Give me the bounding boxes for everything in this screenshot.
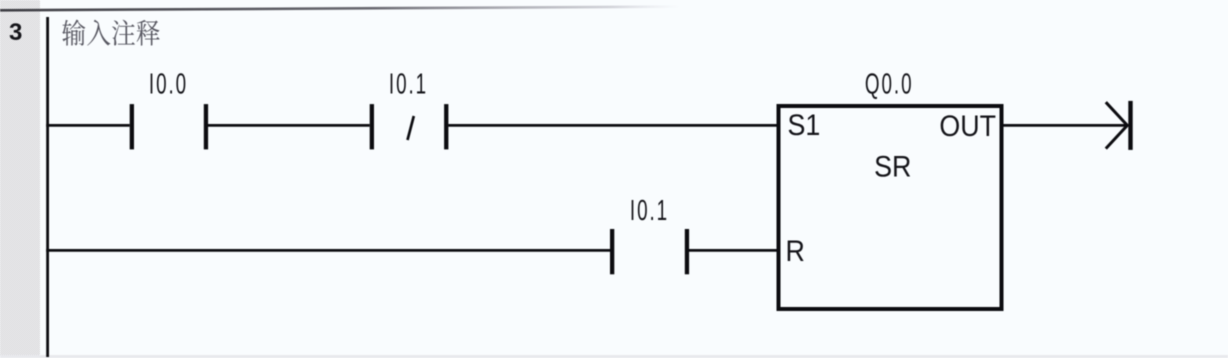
svg-text:SR: SR — [874, 149, 911, 182]
svg-text:I0.0: I0.0 — [149, 68, 188, 100]
svg-text:3: 3 — [9, 19, 22, 46]
svg-text:Q0.0: Q0.0 — [865, 69, 914, 101]
svg-text:I0.1: I0.1 — [630, 195, 669, 227]
svg-text:OUT: OUT — [939, 109, 996, 142]
svg-text:R: R — [786, 234, 805, 267]
svg-text:S1: S1 — [788, 108, 821, 141]
svg-text:I0.1: I0.1 — [389, 68, 428, 100]
